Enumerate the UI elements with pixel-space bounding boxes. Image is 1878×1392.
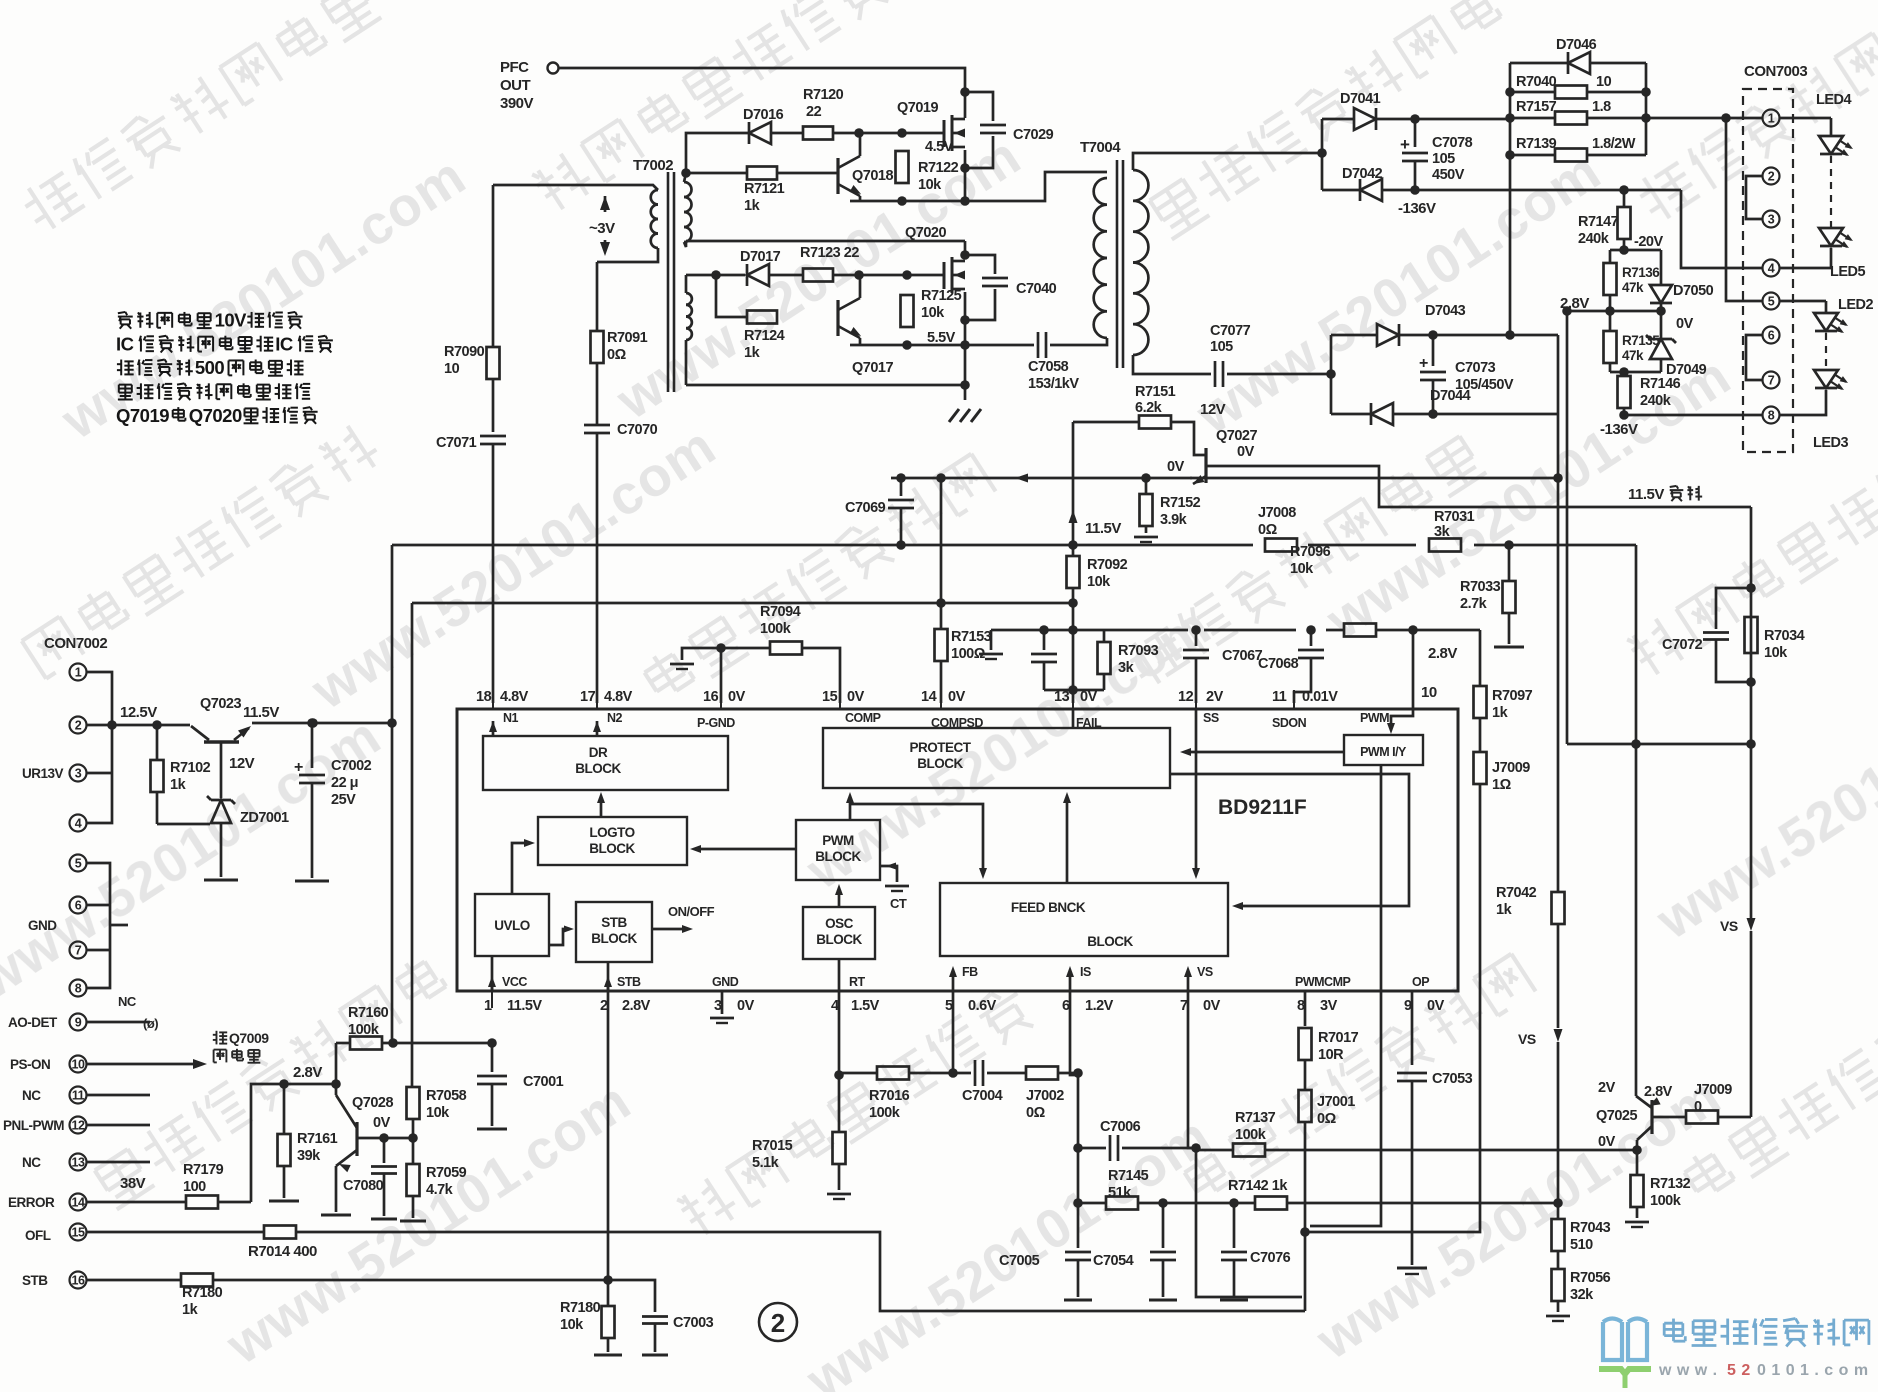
svg-text:10k: 10k <box>426 1105 450 1121</box>
svg-text:0V: 0V <box>1676 316 1694 332</box>
label NC 13 <box>22 1155 41 1170</box>
svg-text:NC: NC <box>118 994 137 1009</box>
wire PWM IY to PROTECT arrow <box>1180 748 1344 756</box>
wire R7121 to Q7018 base <box>777 172 838 175</box>
connector CON7002 pin 10 <box>70 1056 208 1073</box>
capacitor C7069 <box>845 478 914 545</box>
resistor R7132 100k <box>1625 1150 1691 1227</box>
wire LED supply to CON7003 pin1 <box>1646 117 1762 120</box>
label 12V zener <box>229 755 255 772</box>
svg-text:R7160: R7160 <box>348 1005 389 1021</box>
LED LED4 <box>1779 92 1853 156</box>
connector CON7002 pin 9 <box>70 994 159 1031</box>
svg-text:BLOCK: BLOCK <box>1087 934 1133 949</box>
capacitor C7003 <box>608 1280 714 1355</box>
svg-text:OUT: OUT <box>500 77 531 94</box>
wire left rail risers <box>392 545 412 1087</box>
svg-text:240k: 240k <box>1578 231 1610 247</box>
pin 4 RT <box>831 975 880 1014</box>
label OFL <box>25 1228 51 1243</box>
svg-text:39k: 39k <box>297 1148 321 1164</box>
wire PWM-PROTECT branch to FEED <box>850 804 987 879</box>
svg-text:0Ω: 0Ω <box>1258 522 1278 538</box>
wire PWM to LOGTO arrow <box>690 845 796 853</box>
svg-text:16: 16 <box>72 1274 85 1288</box>
svg-text:1k: 1k <box>744 345 761 361</box>
resistor R7139 1.8/2W <box>1516 136 1636 162</box>
resistor J7009 0 ohm <box>1686 1082 1751 1124</box>
svg-text:5 2: 5 2 <box>1727 1362 1751 1379</box>
svg-text:4.5V: 4.5V <box>925 139 954 155</box>
svg-text:R7017: R7017 <box>1318 1030 1359 1046</box>
node junction subnet bottom <box>1068 685 1078 695</box>
svg-text:100: 100 <box>183 1179 206 1195</box>
svg-text:C7002: C7002 <box>331 758 372 774</box>
svg-text:R7091: R7091 <box>607 330 648 346</box>
pin 3 GND <box>712 975 755 1014</box>
svg-text:2V: 2V <box>1598 1080 1616 1096</box>
transformer T7002 primary winding <box>493 185 658 262</box>
ground 777 main <box>949 409 981 422</box>
svg-text:100k: 100k <box>760 621 792 637</box>
connector CON7003 pin 3 <box>1763 211 1780 228</box>
resistor R7124 1k <box>744 311 785 362</box>
resistor R7147 240k <box>1578 190 1631 250</box>
svg-text:C7029: C7029 <box>1013 127 1054 143</box>
svg-text:R7034: R7034 <box>1764 628 1805 644</box>
wire LED2 to LED3 dashed <box>1825 333 1827 370</box>
svg-text:FEED BNCK: FEED BNCK <box>1011 900 1086 915</box>
svg-text:R7043: R7043 <box>1570 1220 1611 1236</box>
svg-text:D7046: D7046 <box>1556 37 1597 53</box>
label 10 pin10 <box>1421 684 1437 701</box>
wire emitter line to x1558 <box>1190 477 1558 480</box>
wire R7094 right to pin15 <box>802 648 840 703</box>
pin 5 FB <box>945 965 997 1014</box>
pin 9 OP <box>1404 975 1445 1014</box>
svg-text:R7146: R7146 <box>1640 376 1681 392</box>
label 12.5V <box>120 704 157 721</box>
capacitor C7058 153/1kV <box>1028 332 1079 392</box>
resistor R7161 39k <box>269 1084 338 1201</box>
svg-text:P-GND: P-GND <box>697 716 735 730</box>
wire OSC to pin4 <box>838 959 841 991</box>
svg-text:4.7k: 4.7k <box>426 1182 454 1198</box>
wire pin4 column <box>838 991 841 1075</box>
svg-text:25V: 25V <box>331 792 356 808</box>
svg-text:R7145: R7145 <box>1108 1168 1149 1184</box>
transformer T7002 secondary winding 2 <box>686 275 692 385</box>
capacitor C7066 <box>1031 630 1057 690</box>
wire 2.8V node line <box>1104 629 1480 632</box>
svg-text:(ø): (ø) <box>143 1016 158 1031</box>
svg-text:R7120: R7120 <box>803 87 844 103</box>
wire D7017 to R7123 <box>769 274 803 277</box>
svg-text:R7097: R7097 <box>1492 688 1533 704</box>
resistor R7180b 10k <box>560 1280 622 1355</box>
pin 15 COMP <box>822 689 881 725</box>
note annotation text block <box>116 310 333 426</box>
wire 2.8V node up to R7160 <box>335 1043 338 1084</box>
svg-text:7: 7 <box>75 944 82 958</box>
svg-text:FB: FB <box>962 965 978 979</box>
wire Q7023 collector to zener <box>220 742 223 798</box>
wire pin9 column <box>1411 991 1414 1065</box>
svg-text:17: 17 <box>580 689 596 705</box>
wire PWM to PROTECT arrow <box>846 792 854 820</box>
capacitor C7053 <box>1397 1071 1473 1274</box>
pin 8 PWMCMP <box>1295 975 1350 1014</box>
wire pin10 into IC <box>1387 630 1413 734</box>
wire R7094 left to ground stub <box>670 648 770 669</box>
svg-text:DR: DR <box>589 745 608 760</box>
svg-text:47k: 47k <box>1622 280 1644 295</box>
svg-text:2.7k: 2.7k <box>1460 596 1488 612</box>
svg-text:+: + <box>294 759 303 776</box>
svg-text:+: + <box>1419 355 1428 372</box>
svg-text:LOGTO: LOGTO <box>589 825 634 840</box>
svg-text:105: 105 <box>1432 151 1455 167</box>
wire pin4 feed <box>1681 190 1762 268</box>
svg-text:Q7025: Q7025 <box>1596 1108 1637 1124</box>
svg-text:10: 10 <box>444 361 460 377</box>
svg-text:2: 2 <box>1768 170 1775 184</box>
wire R7090 column <box>492 185 495 432</box>
wire pin12 SS into FEED <box>1192 709 1200 879</box>
svg-text:D7050: D7050 <box>1673 283 1714 299</box>
resistor R7125 10k <box>901 288 962 327</box>
capacitor C7073 105/450V <box>1419 335 1514 414</box>
node junction D7050 cathode <box>1656 306 1666 316</box>
wire Q7028 base line <box>357 1137 413 1140</box>
svg-text:C7080: C7080 <box>343 1178 384 1194</box>
capacitor C7005 <box>999 1203 1092 1300</box>
svg-text:T7004: T7004 <box>1080 139 1121 156</box>
capacitor C7002 22u 25V <box>294 723 372 881</box>
connector CON7002 pin 5 <box>70 855 87 872</box>
svg-text:R7015: R7015 <box>752 1138 793 1154</box>
svg-text:1.8/2W: 1.8/2W <box>1592 136 1636 152</box>
svg-text:0V: 0V <box>1167 459 1185 475</box>
svg-text:J7009: J7009 <box>1492 760 1530 776</box>
capacitor C7040 <box>960 250 1056 325</box>
node junction R7160 taps <box>388 1038 497 1048</box>
svg-text:LED3: LED3 <box>1813 435 1849 451</box>
node junction pin10 node <box>1408 625 1418 635</box>
logo jiadian weixiu ziliao wang <box>1599 1319 1869 1389</box>
svg-text:D7016: D7016 <box>743 107 784 123</box>
svg-text:4.8V: 4.8V <box>604 689 633 705</box>
resistor R7043 510 <box>1552 1219 1611 1253</box>
svg-text:22: 22 <box>806 104 822 120</box>
transistor Q7023 <box>191 696 251 742</box>
pin 18 N1 <box>476 689 529 736</box>
label 12V <box>1200 401 1226 418</box>
svg-text:1.2V: 1.2V <box>1085 998 1114 1014</box>
transistor Q7020 MOSFET <box>905 225 965 293</box>
svg-text:18: 18 <box>476 689 492 705</box>
label -136V lower <box>1600 421 1638 438</box>
label 2.8V pin10 <box>1428 645 1457 662</box>
node junction bridge2 input <box>1326 369 1336 379</box>
svg-text:0Ω: 0Ω <box>1317 1111 1337 1127</box>
capacitor C7001 <box>477 1043 564 1129</box>
wire pin2 12.5V line <box>87 724 190 727</box>
label PS-ON <box>10 1057 50 1072</box>
wire R7151 left column <box>1073 422 1139 545</box>
svg-text:0V: 0V <box>373 1115 391 1131</box>
svg-text:Q7019: Q7019 <box>897 100 938 116</box>
svg-text:PWM I/Y: PWM I/Y <box>1360 745 1407 759</box>
wire rail to Q7025 emitter column <box>1635 545 1638 1096</box>
wire pin3 GND ground <box>710 991 734 1023</box>
wire pin7 column <box>1188 991 1302 1297</box>
node junction rail2 R7153 <box>936 598 946 608</box>
capacitor C7070 <box>584 422 658 438</box>
svg-text:C7006: C7006 <box>1100 1119 1141 1135</box>
wire sec2 top to D7017 <box>686 274 745 277</box>
resistor R7059 4.7k <box>400 1138 467 1221</box>
node junction pin7 taps <box>1191 1143 1201 1153</box>
connector CON7003 pin 5 <box>1763 293 1780 310</box>
wire -136V lower row to pin8 <box>1624 414 1762 417</box>
connector CON7003 pin 8 <box>1763 407 1780 424</box>
transistor Q7025 <box>1596 1080 1673 1150</box>
svg-text:C7005: C7005 <box>999 1253 1040 1269</box>
capacitor C7076 <box>1220 1203 1291 1300</box>
wire pin15 OFL line <box>87 1232 1305 1311</box>
svg-text:2.8V: 2.8V <box>1428 645 1457 662</box>
svg-text:CON7002: CON7002 <box>44 635 107 652</box>
node junction 2.8V tap <box>1562 306 1610 316</box>
svg-text:1k: 1k <box>744 198 761 214</box>
svg-text:Q7019: Q7019 <box>116 405 169 426</box>
svg-text:R7042: R7042 <box>1496 885 1537 901</box>
connector CON7003 label <box>1744 63 1807 80</box>
wire zener to ground <box>204 823 238 880</box>
wire R-group left column <box>1509 63 1512 190</box>
label GND <box>28 918 57 933</box>
resistor R7097 1k <box>1474 630 1533 752</box>
node junction C7078 <box>1410 114 1420 195</box>
svg-text:14: 14 <box>921 689 937 705</box>
svg-text:IC: IC <box>275 333 293 354</box>
wire bracket pins5-8 <box>87 863 128 988</box>
svg-text:R7142 1k: R7142 1k <box>1228 1178 1288 1194</box>
svg-text:C7067: C7067 <box>1222 648 1263 664</box>
arrow up on R7151 column <box>1069 510 1078 523</box>
svg-text:GND: GND <box>712 975 739 989</box>
svg-text:OFL: OFL <box>25 1228 51 1243</box>
wire pin13 FAIL into PROTECT <box>1072 709 1075 728</box>
svg-text:R7093: R7093 <box>1118 643 1159 659</box>
svg-text:510: 510 <box>1570 1237 1593 1253</box>
block PWM I/Y <box>1344 735 1423 765</box>
wire LED4 to LED5 dashed <box>1830 156 1832 228</box>
svg-text:0Ω: 0Ω <box>1026 1105 1046 1121</box>
svg-text:OSC: OSC <box>825 916 854 931</box>
node PFC OUT 390V terminal <box>500 59 559 112</box>
pin 17 N2 <box>580 689 633 736</box>
svg-text:1: 1 <box>484 998 492 1014</box>
svg-text:500: 500 <box>195 357 225 378</box>
IC label BD9211F <box>1218 796 1307 819</box>
node junction -20V <box>1619 245 1629 255</box>
svg-text:1Ω: 1Ω <box>1492 777 1512 793</box>
label 11.5V dianyuan <box>1628 486 1702 503</box>
svg-text:3: 3 <box>1768 213 1775 227</box>
label STB <box>22 1273 48 1288</box>
svg-text:VS: VS <box>1720 918 1738 934</box>
wire Q7028 emitter ground <box>321 1166 351 1215</box>
connector CON7003 pin 2 <box>1763 168 1780 185</box>
node junction rail C7069 <box>896 540 906 550</box>
svg-text:R7132: R7132 <box>1650 1176 1691 1192</box>
wire 2.8V column <box>1566 311 1569 744</box>
svg-text:13: 13 <box>72 1156 85 1170</box>
wire R7091 column <box>596 262 599 425</box>
wire y744 link <box>1567 743 1751 746</box>
svg-text:4: 4 <box>1768 262 1775 276</box>
wire -136V row to R7147 <box>1510 189 1681 192</box>
resistor R7137 100k <box>1196 1110 1637 1157</box>
pin 6 IS <box>1062 965 1114 1014</box>
node junctions R-group <box>1505 87 1651 160</box>
svg-text:-136V: -136V <box>1600 421 1638 438</box>
svg-text:R7056: R7056 <box>1570 1270 1611 1286</box>
wire bridge2 left <box>1330 335 1333 414</box>
node junction C7072 bracket <box>1746 583 1756 687</box>
svg-text:5: 5 <box>75 857 82 871</box>
wire D7016 to R7120 <box>771 132 803 135</box>
resistor R7123 22 <box>800 245 859 282</box>
svg-text:2.8V: 2.8V <box>622 998 651 1014</box>
svg-text:11.5V: 11.5V <box>243 704 279 721</box>
resistor R7160 100k <box>336 1005 492 1050</box>
svg-text:D7017: D7017 <box>740 249 781 265</box>
svg-text:10k: 10k <box>1087 574 1111 590</box>
diode D7049 <box>1646 311 1707 378</box>
svg-text:Q7018: Q7018 <box>852 168 893 184</box>
svg-text:C7069: C7069 <box>845 500 886 516</box>
svg-text:2: 2 <box>771 1308 785 1338</box>
resistor R7040 10 <box>1516 74 1612 99</box>
transformer T7004 secondary winding <box>1133 153 1322 374</box>
svg-text:CON7003: CON7003 <box>1744 63 1807 80</box>
capacitor C7071 <box>436 435 506 451</box>
connector CON7003 pin 7 <box>1763 372 1780 389</box>
label -20V <box>1634 234 1663 250</box>
wire switch node to Q7020 drain <box>964 241 967 258</box>
svg-text:STB: STB <box>22 1273 48 1288</box>
svg-text:0V: 0V <box>1237 444 1255 460</box>
svg-text:6: 6 <box>75 899 82 913</box>
svg-text:0V: 0V <box>1203 998 1221 1014</box>
wire R7123 to Q7020 gate <box>833 274 944 277</box>
svg-text:100k: 100k <box>1235 1127 1267 1143</box>
connector CON7002 pin 11 <box>70 1087 151 1104</box>
svg-text:C7058: C7058 <box>1028 359 1069 375</box>
wire Q7020 source to 5.5V line <box>964 292 967 345</box>
wire jumper pins 6-7 <box>1746 335 1762 380</box>
svg-text:R7123 22: R7123 22 <box>800 245 859 261</box>
resistor J7001 0 ohm <box>1299 1090 1356 1311</box>
pin 16 P-GND <box>697 689 746 730</box>
svg-text:GND: GND <box>28 918 57 933</box>
svg-text:4.8V: 4.8V <box>500 689 529 705</box>
node junction 11.5V line <box>308 718 397 728</box>
svg-text:3.9k: 3.9k <box>1160 512 1188 528</box>
resistor R7014 400 <box>248 1226 317 1261</box>
wire PWM BLOCK to OSC arrow <box>835 884 843 907</box>
svg-text:PWMCMP: PWMCMP <box>1295 975 1350 989</box>
svg-text:6.2k: 6.2k <box>1135 400 1163 416</box>
node junction -136V lower <box>1619 410 1629 420</box>
wire pin13 subnet bottom <box>1044 689 1104 692</box>
svg-text:R7014 400: R7014 400 <box>248 1243 317 1260</box>
wire pin5 feed column <box>1726 118 1762 301</box>
wire x1510 column to bridge2 <box>1509 190 1512 335</box>
svg-text:C7078: C7078 <box>1432 135 1473 151</box>
wire CT stub <box>880 863 909 912</box>
wire bridge2 right column <box>1557 335 1560 414</box>
pin 10 PWM <box>1360 711 1389 725</box>
label 38V <box>120 1175 146 1192</box>
svg-text:2.8V: 2.8V <box>293 1064 322 1081</box>
node junction y744 <box>1631 739 1756 749</box>
svg-text:R7040: R7040 <box>1516 74 1557 90</box>
svg-text:450V: 450V <box>1432 167 1465 183</box>
svg-text:Q7027: Q7027 <box>1216 428 1257 444</box>
svg-text:ON/OFF: ON/OFF <box>668 904 715 919</box>
svg-text:COMP: COMP <box>845 711 881 725</box>
svg-text:100k: 100k <box>348 1022 380 1038</box>
svg-text:12: 12 <box>1178 689 1194 705</box>
svg-text:PWM: PWM <box>822 833 854 848</box>
svg-text:5: 5 <box>1768 295 1775 309</box>
svg-text:153/1kV: 153/1kV <box>1028 376 1079 392</box>
arrow VS down at x1751 <box>1720 918 1756 934</box>
resistor R7152 3.9k <box>1134 478 1201 542</box>
block LOGTO BLOCK <box>538 817 687 865</box>
svg-text:12V: 12V <box>229 755 255 772</box>
transistor Q7018 <box>838 156 893 196</box>
wire C7071 to pin18 column <box>492 444 495 703</box>
node junction R7147 top <box>1619 185 1629 195</box>
svg-text:C7054: C7054 <box>1093 1253 1134 1269</box>
svg-text:10k: 10k <box>1764 645 1788 661</box>
node junction C7076 top <box>1229 1198 1239 1208</box>
resistor R7034 10k <box>1745 617 1805 661</box>
node junction emitter wire right <box>1553 473 1563 483</box>
svg-text:C7004: C7004 <box>962 1088 1003 1104</box>
svg-text:11: 11 <box>72 1089 85 1103</box>
svg-text:C7001: C7001 <box>523 1074 564 1090</box>
svg-text:BLOCK: BLOCK <box>917 756 963 771</box>
svg-text:11: 11 <box>1272 689 1287 705</box>
wire UVLO to pin1 <box>491 956 494 991</box>
svg-text:BLOCK: BLOCK <box>815 849 861 864</box>
svg-text:100k: 100k <box>869 1105 901 1121</box>
svg-text:8: 8 <box>75 982 82 996</box>
svg-text:0: 0 <box>1694 1099 1702 1115</box>
svg-text:R7096: R7096 <box>1290 544 1331 560</box>
wire source line <box>850 200 965 203</box>
wire R7151 to Q7027 base <box>1171 422 1206 455</box>
transformer T7002 label <box>633 157 673 174</box>
svg-text:10k: 10k <box>560 1317 584 1333</box>
label 2.8V left <box>293 1064 322 1081</box>
